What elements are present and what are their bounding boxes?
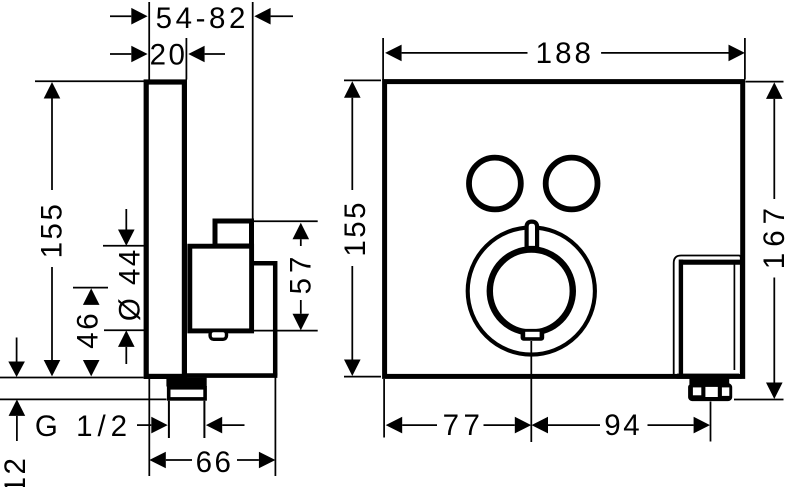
svg-text:54-82: 54-82 xyxy=(156,2,249,35)
thermostat handle outer circle xyxy=(468,227,595,354)
handle grip tab (side view) xyxy=(210,331,226,340)
handle top index tab xyxy=(527,222,538,248)
svg-text:167: 167 xyxy=(758,202,790,269)
dimension 77 xyxy=(402,424,515,426)
thermostat handle grip ring xyxy=(490,250,573,333)
dimension 54-82 xyxy=(110,15,293,17)
shower holder box (front view) xyxy=(674,256,742,378)
extension line x=149 (plate front face) xyxy=(148,2,150,80)
outlet flange (front view) xyxy=(689,378,729,384)
svg-text:G 1/2: G 1/2 xyxy=(35,410,132,443)
svg-text:155: 155 xyxy=(339,200,372,257)
dimension 188 xyxy=(402,52,729,54)
select button 2 (right circle) xyxy=(546,158,598,210)
svg-text:155: 155 xyxy=(35,202,68,259)
outlet pipe (side view) xyxy=(169,401,205,438)
valve box (side view, protruding holder) xyxy=(250,261,275,376)
extension line x=253 (body rear) xyxy=(252,2,254,331)
svg-text:77: 77 xyxy=(443,409,485,442)
dimension 94 xyxy=(548,424,694,426)
svg-text:20: 20 xyxy=(150,39,188,72)
dimension Ø44 xyxy=(103,209,148,364)
dimension 66 xyxy=(149,377,275,476)
extension line x=186 (plate rear face) xyxy=(185,38,187,80)
svg-text:188: 188 xyxy=(536,37,594,70)
extension lines top (188) xyxy=(383,38,745,80)
dimension 57 xyxy=(251,221,318,330)
handle (side view) xyxy=(190,246,252,331)
svg-text:12: 12 xyxy=(0,456,32,487)
outlet nut (side view) xyxy=(169,388,205,399)
svg-text:57: 57 xyxy=(284,252,317,295)
select button 1 (left circle) xyxy=(469,158,521,210)
outlet hex nut (front view) xyxy=(688,383,732,401)
body bottom connecting line xyxy=(185,373,277,378)
outlet flange (side view) xyxy=(166,378,206,387)
svg-text:66: 66 xyxy=(196,446,234,479)
bottom extension lines (77 / 94) xyxy=(384,341,710,442)
dimension 167 xyxy=(734,82,784,400)
dimension G 1/2 xyxy=(137,424,245,426)
dimension 20 xyxy=(110,53,225,55)
svg-text:Ø 44: Ø 44 xyxy=(113,247,146,321)
dimension 155 (side view) xyxy=(0,81,144,377)
svg-text:46: 46 xyxy=(72,311,105,349)
dimension 12 xyxy=(0,338,167,442)
select button (side view) xyxy=(215,221,252,246)
handle bottom tab xyxy=(521,329,545,341)
svg-text:94: 94 xyxy=(604,409,642,442)
dimension 155 (front view) xyxy=(344,80,381,376)
dimension 46 xyxy=(73,287,108,289)
wall plate (side view, 20 thick) xyxy=(146,82,184,376)
escutcheon plate (front view 188x155) xyxy=(385,82,743,377)
